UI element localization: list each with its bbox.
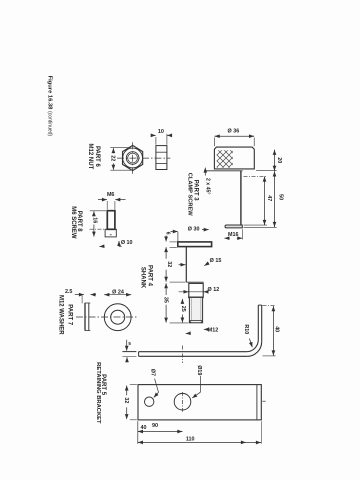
svg-text:Ø 15: Ø 15 xyxy=(210,258,222,264)
svg-text:R10: R10 xyxy=(243,324,249,334)
svg-text:22: 22 xyxy=(110,155,116,161)
svg-text:Ø 12: Ø 12 xyxy=(208,287,220,293)
svg-text:110: 110 xyxy=(186,436,195,442)
svg-text:Ø19: Ø19 xyxy=(196,365,202,375)
svg-text:M6: M6 xyxy=(107,192,115,198)
svg-text:Ø 30: Ø 30 xyxy=(188,227,200,233)
svg-text:M12 WASHER: M12 WASHER xyxy=(58,295,64,335)
svg-text:(continued): (continued) xyxy=(47,111,53,136)
svg-text:47: 47 xyxy=(266,195,272,201)
svg-text:M12: M12 xyxy=(208,327,219,333)
svg-text:Ø7: Ø7 xyxy=(149,369,155,376)
svg-text:40: 40 xyxy=(273,326,279,332)
svg-text:M16: M16 xyxy=(228,232,239,238)
svg-text:40: 40 xyxy=(141,425,147,431)
svg-text:20: 20 xyxy=(276,157,282,163)
svg-text:Ø 36: Ø 36 xyxy=(228,129,240,135)
svg-text:PART 7: PART 7 xyxy=(66,304,72,326)
svg-text:PART 4: PART 4 xyxy=(146,265,152,287)
svg-text:16: 16 xyxy=(92,217,98,223)
svg-text:32: 32 xyxy=(166,261,172,267)
svg-text:2.5: 2.5 xyxy=(65,289,73,295)
svg-text:CLAMP SCREW: CLAMP SCREW xyxy=(186,173,192,216)
svg-text:Ø 10: Ø 10 xyxy=(121,240,133,246)
svg-text:25: 25 xyxy=(180,306,186,312)
svg-text:M12 NUT: M12 NUT xyxy=(87,144,93,170)
svg-text:M6 SCREW: M6 SCREW xyxy=(70,206,76,239)
svg-text:2 x 45°: 2 x 45° xyxy=(205,178,211,195)
svg-text:32: 32 xyxy=(123,397,129,403)
svg-text:PART 3: PART 3 xyxy=(193,180,199,202)
svg-text:SHANK: SHANK xyxy=(140,267,146,289)
svg-text:10: 10 xyxy=(158,129,164,135)
svg-text:50: 50 xyxy=(277,194,283,200)
svg-text:PART 6: PART 6 xyxy=(94,146,100,168)
svg-text:35: 35 xyxy=(162,297,168,303)
svg-text:6: 6 xyxy=(165,232,171,235)
svg-text:RETAINING BRACKET: RETAINING BRACKET xyxy=(95,362,101,424)
svg-text:Figure 16.38: Figure 16.38 xyxy=(46,76,52,111)
svg-text:PART 8: PART 8 xyxy=(76,211,82,233)
svg-text:90: 90 xyxy=(152,423,158,429)
